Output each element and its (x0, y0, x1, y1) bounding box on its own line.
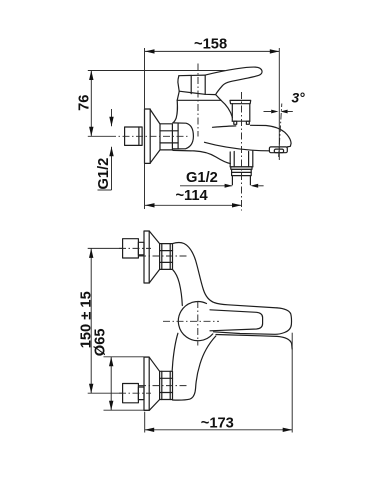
arrow ~158 right (270, 49, 280, 53)
knob crosshair (163, 320, 219, 322)
axis B top (139, 255, 187, 257)
arrow 3deg left (271, 110, 278, 114)
bottom flange cone (149, 357, 159, 410)
svg-text:76: 76 (77, 95, 93, 111)
3deg arrow tails (264, 111, 272, 113)
top flange cone (149, 231, 159, 283)
3deg tilted axis (279, 104, 282, 159)
lever (side view) (205, 67, 262, 95)
bottom hex adapter (160, 371, 173, 399)
dim line ~114 (145, 204, 242, 206)
thin lines: dimensions, centerlines, extension lines (88, 48, 293, 433)
body D-boss (173, 123, 194, 149)
axis B bottom (139, 385, 187, 387)
top flange disc (144, 231, 149, 283)
dim O65 (110, 357, 112, 410)
flange cone (150, 110, 160, 164)
top hex adapter (160, 244, 173, 270)
shower outlet (230, 151, 253, 185)
arrow ~158 left (145, 49, 155, 53)
arrow 150+-15 bottom (89, 384, 93, 394)
body shoulder right (221, 100, 232, 117)
spout top edge (213, 126, 236, 127)
svg-text:~173: ~173 (201, 416, 234, 432)
escutcheon flange disc (side view) (145, 109, 151, 163)
lever inner neck (210, 310, 263, 331)
diverter/outlet axis (241, 92, 243, 211)
svg-text:~114: ~114 (175, 188, 208, 204)
ext 76 top (88, 70, 227, 72)
arrow G1/2 left bottom (109, 147, 113, 157)
dim line ~158 (145, 50, 279, 52)
body bottom arm (172, 333, 178, 370)
lever front: right cap and bottom (214, 308, 292, 334)
G1/2 dim left (111, 109, 113, 126)
arrow G1/2 left top (109, 117, 113, 127)
arrow 150+-15 top (89, 248, 93, 258)
svg-text:G1/2: G1/2 (186, 170, 218, 186)
dim line 76 (90, 71, 92, 137)
dim ~173 (145, 429, 293, 431)
bottom flange disc (144, 357, 149, 410)
arrow ~114 left (145, 203, 155, 207)
hex adapter (side view) (160, 124, 178, 150)
arrow 3deg right (280, 110, 287, 114)
arrow O65 top (109, 357, 113, 367)
ext line wall plane (left, shared ~158/~114) (144, 48, 146, 209)
svg-text:~158: ~158 (194, 36, 227, 52)
spout underside (205, 142, 270, 151)
arrow ~114 right (232, 203, 242, 207)
axis A top (119, 247, 151, 249)
arrow 76 top (89, 71, 93, 81)
arrow 76 bottom (89, 127, 93, 137)
arrowheads (89, 49, 292, 432)
knob circle front (178, 302, 212, 341)
ext line spout tip vertical (right, ~158 + 3deg ref) (278, 48, 280, 160)
wall pipe G1/2 nipple (125, 127, 143, 145)
cartridge axis (197, 64, 199, 137)
ext 76 bottom / wall axis shelf (88, 135, 109, 137)
arrow G1/2 outlet left (225, 184, 233, 188)
body bottom line (173, 150, 230, 163)
diverter knob (230, 100, 251, 124)
svg-text:G1/2: G1/2 (96, 158, 112, 190)
arrow ~173 left (145, 428, 155, 432)
svg-text:3°: 3° (292, 91, 306, 106)
arrow ~173 right (283, 428, 293, 432)
axis A bottom (119, 392, 151, 394)
aerator (269, 147, 287, 153)
arrow G1/2 outlet right (250, 184, 258, 188)
spout silhouette behind lever (216, 335, 292, 350)
dim 150+-15 (90, 248, 92, 393)
cartridge collar (177, 92, 221, 101)
bottom union nut (123, 384, 144, 403)
top union nut (123, 239, 144, 258)
handle knob (side view) (178, 75, 216, 95)
arrow O65 bottom (109, 401, 113, 411)
G1/2 bottom underline (180, 185, 232, 187)
wall axis centerline (109, 135, 188, 137)
body top arm (173, 243, 278, 308)
svg-text:Ø65: Ø65 (93, 328, 109, 356)
body neck left (173, 100, 178, 123)
